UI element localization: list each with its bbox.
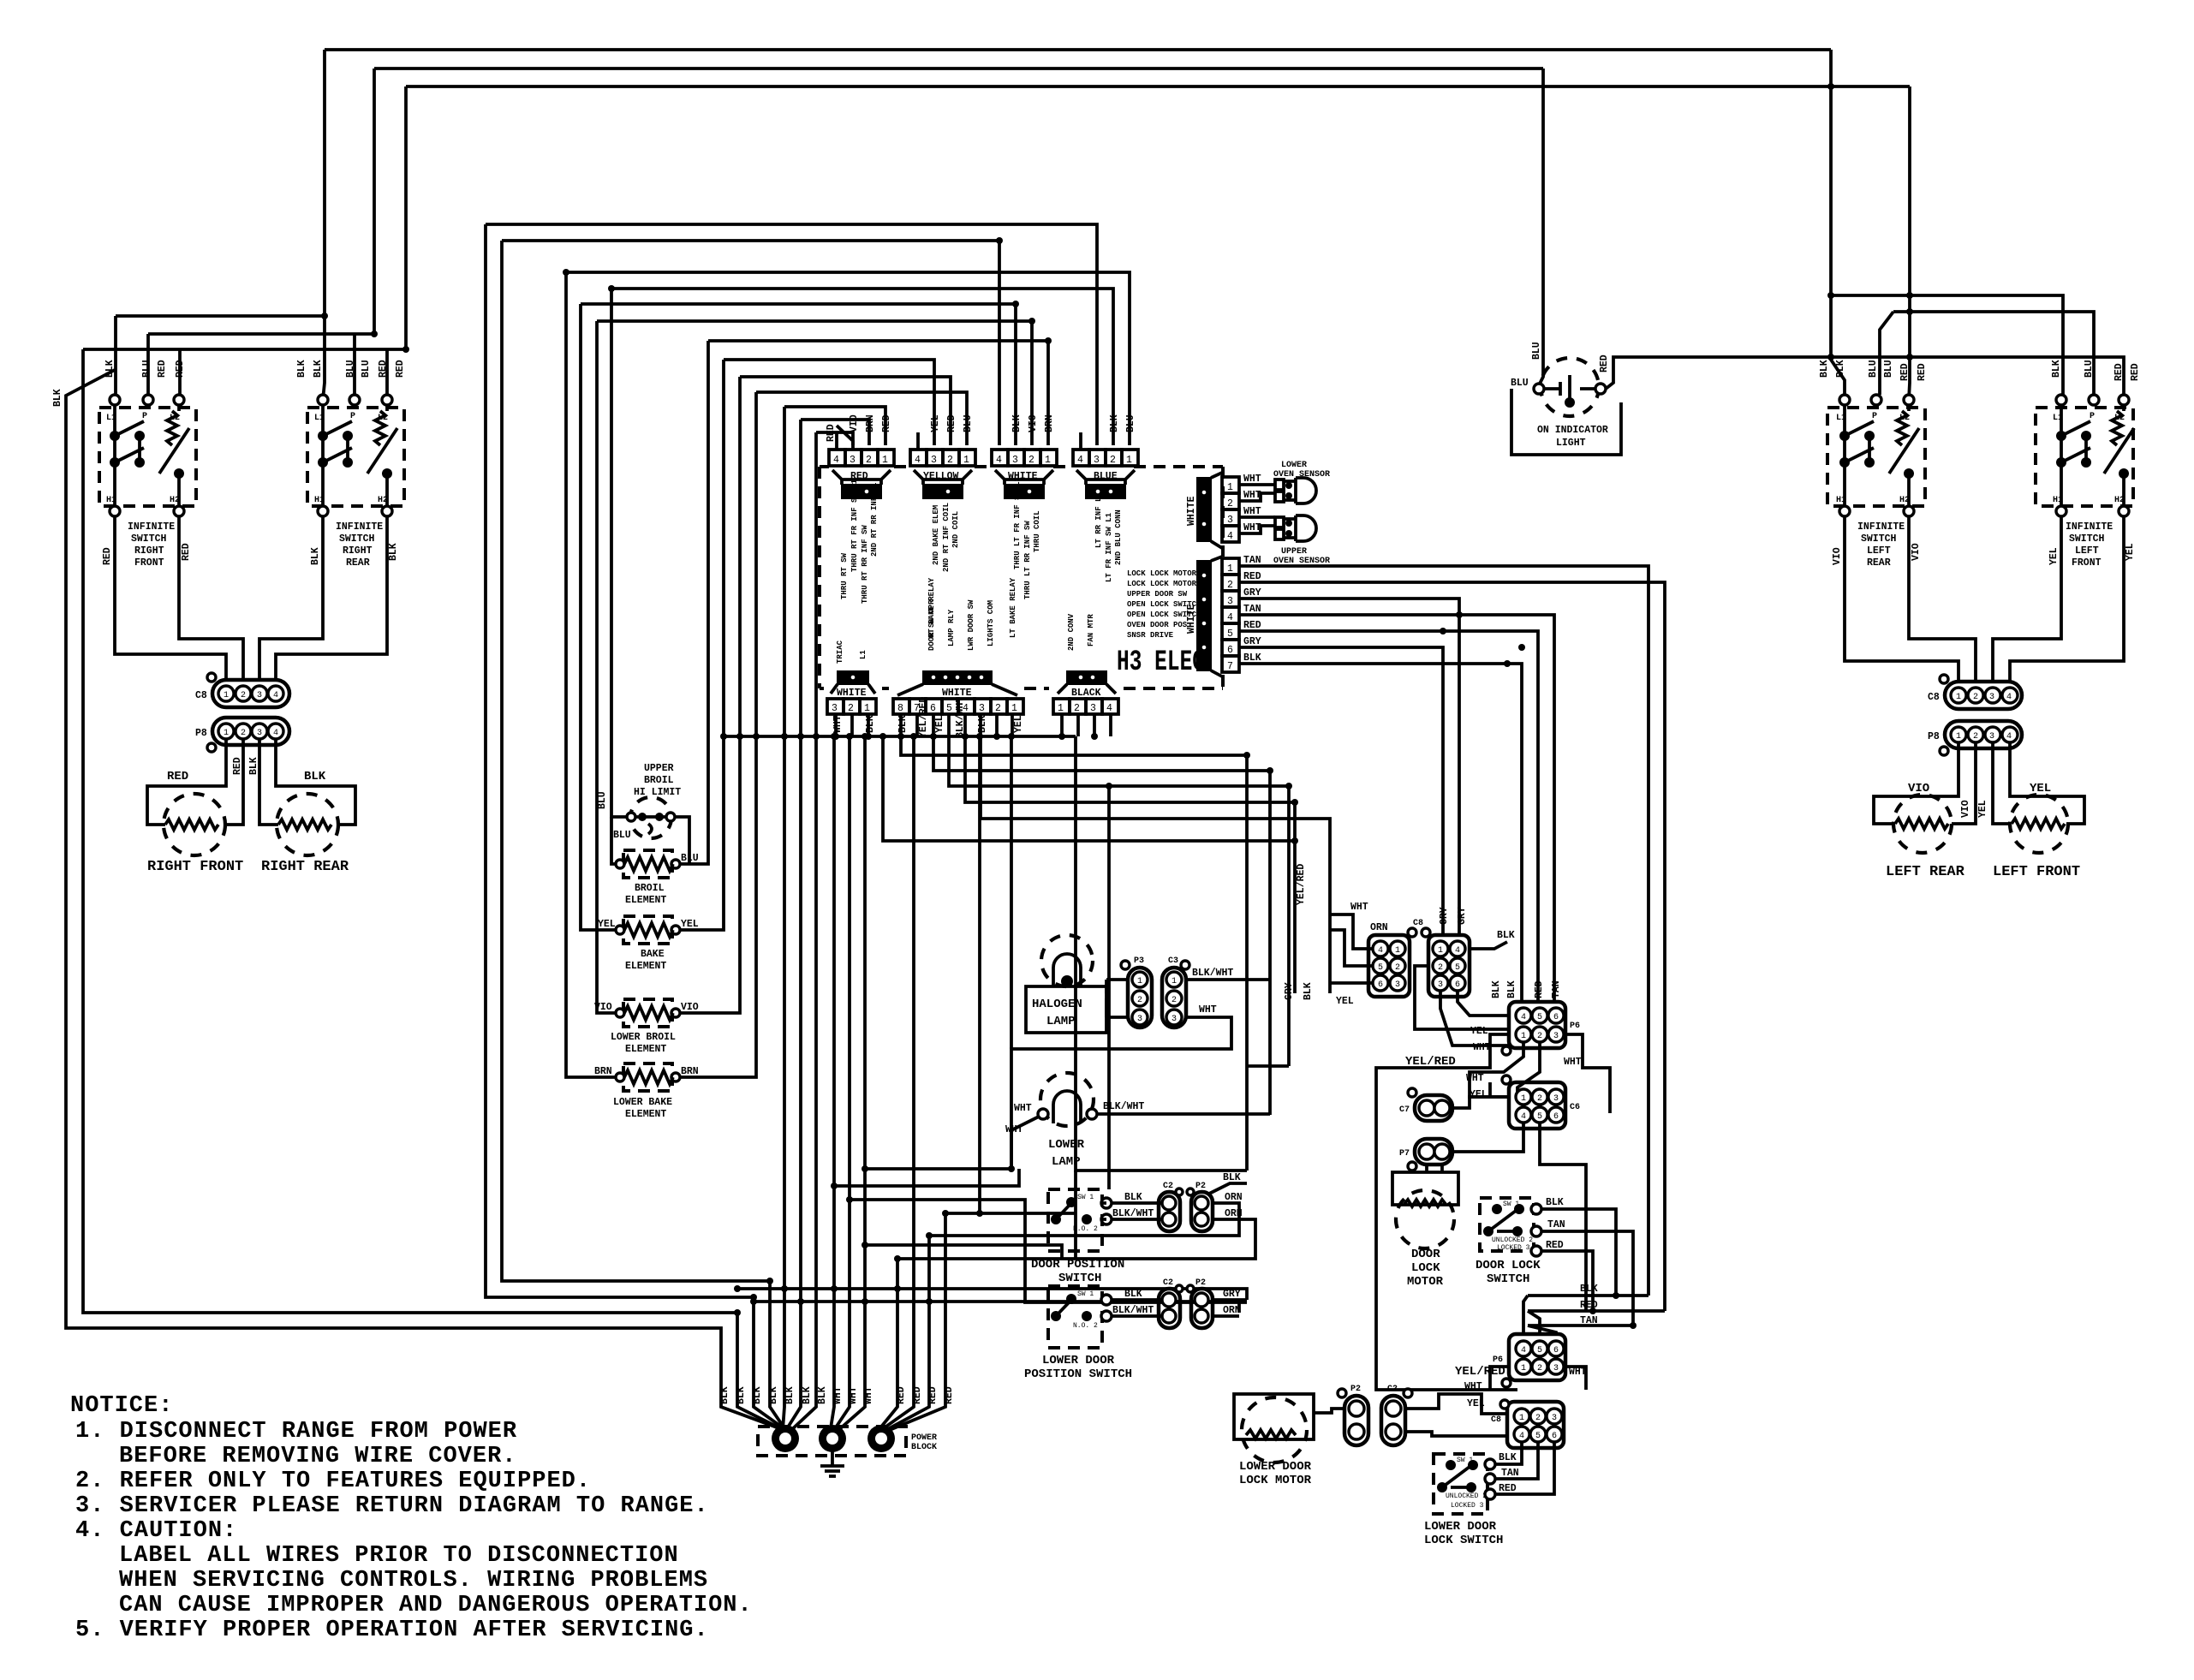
svg-text:L2: L2 [170,414,180,423]
svg-text:LOWER: LOWER [1048,1138,1085,1152]
svg-text:L1: L1 [106,414,116,423]
svg-text:THRU LT RR INF SW: THRU LT RR INF SW [1023,521,1032,599]
pin H2 left front [2119,506,2129,516]
svg-text:2ND RT RR INF L1: 2ND RT RR INF L1 [870,482,879,557]
svg-text:WHT: WHT [1466,1073,1484,1084]
wire fan vertical 974 [831,736,834,1428]
svg-text:2ND CONV: 2ND CONV [1067,613,1076,651]
svg-text:REAR: REAR [346,557,370,569]
wire P6b right wht [1565,1367,1586,1390]
connector WHITE body [1005,485,1044,498]
wire RR H2 to C8 pin4 [276,516,387,680]
connector function text extra [861,503,1113,638]
svg-text:WHT: WHT [1350,902,1368,913]
connector C2 door [1159,1192,1180,1231]
svg-text:BLK: BLK [1303,982,1314,1000]
wire wht right of P6 [1565,1034,1610,1113]
wire element feed x697 [597,321,620,1013]
connector BLACK body [1067,671,1106,684]
connector P6g 6pin gry [1428,935,1470,997]
wire TAN long [1239,566,1648,1296]
svg-text:BLACK: BLACK [1071,688,1101,699]
wire P8.3 down [259,739,278,825]
pin L1 left rear [1839,395,1850,405]
pin L2 left front [2119,395,2129,405]
pin H1 left rear [1839,506,1850,516]
svg-text:WHEN SERVICING CONTROLS. WIRIN: WHEN SERVICING CONTROLS. WIRING PROBLEMS [119,1568,708,1594]
connector BLUE pin boxes [1073,450,1138,466]
lower lamp pins [1038,1109,1048,1119]
wire ORN lower [1213,1314,1239,1318]
wire step S1 [901,736,1247,1171]
connector C2m [1381,1396,1405,1445]
svg-text:L1: L1 [859,650,867,659]
svg-text:YEL/RED: YEL/RED [1405,1055,1456,1069]
connector P2 lower door [1191,1289,1213,1328]
connector WHITE3 pin boxes [827,699,876,714]
wire P6b left to loop [1490,1367,1509,1390]
wire main bus under board [724,735,1076,738]
svg-text:LOCKED 3: LOCKED 3 [1451,1502,1484,1510]
svg-text:WHT: WHT [848,1386,859,1404]
svg-text:LEFT: LEFT [1867,545,1891,557]
wire RED long [1239,582,1665,1311]
indicator box [1511,389,1621,455]
svg-text:THRU RT FR INF SW L1: THRU RT FR INF SW L1 [850,479,859,572]
svg-text:1: 1 [1227,482,1233,493]
svg-text:LOWER BROIL: LOWER BROIL [611,1032,676,1043]
svg-text:2: 2 [1537,1094,1542,1104]
wire step S3 [949,736,1289,1066]
pin H2 right rear [382,506,392,516]
wire fan vertical 918 [783,407,784,1430]
svg-text:ORN: ORN [1225,1192,1243,1203]
svg-text:1: 1 [224,729,229,738]
svg-text:P2: P2 [1195,1182,1206,1191]
svg-text:3: 3 [832,703,838,714]
svg-text:BRN: BRN [1044,414,1055,432]
lower bake element [623,1063,672,1091]
svg-text:SWITCH: SWITCH [1058,1272,1101,1285]
wire nested bus N6 [597,321,1032,445]
svg-text:REAR: REAR [1867,557,1891,569]
svg-text:BLK: BLK [1580,1284,1598,1295]
svg-text:BLU: BLU [361,360,372,378]
lower broil element [623,999,672,1027]
svg-text:LT RR INF L1: LT RR INF L1 [1094,492,1103,548]
fan wire labels BLK [719,1386,955,1404]
infinite switch right rear box [307,408,404,506]
svg-text:3. SERVICER PLEASE RETURN DIAG: 3. SERVICER PLEASE RETURN DIAGRAM TO RAN… [75,1493,709,1519]
svg-text:4. CAUTION:: 4. CAUTION: [75,1518,237,1544]
door lock switch wires [1541,1209,1633,1326]
svg-text:C2: C2 [1163,1182,1173,1191]
svg-text:3: 3 [257,729,262,738]
svg-text:3: 3 [850,455,856,466]
svg-text:MOTOR: MOTOR [1407,1275,1444,1289]
lower door lock switch [1434,1454,1488,1514]
svg-text:2ND RT INF COIL: 2ND RT INF COIL [942,503,951,572]
ground symbol [820,1451,844,1476]
wire vertical A left [323,50,325,400]
door lock switch pins [1531,1204,1541,1214]
svg-text:BLK: BLK [1491,980,1502,998]
wire GRY to lock conn [1239,599,1459,937]
connector BLACK pin function text [1067,613,1095,651]
wire center bundle horizontals [945,1212,1076,1215]
svg-text:P8: P8 [1928,731,1940,742]
svg-text:LAMP: LAMP [1052,1155,1081,1169]
svg-text:FRONT: FRONT [134,557,164,569]
wire nested bus N12 [801,420,869,445]
pin P left rear [1871,395,1881,405]
svg-text:BLK: BLK [310,547,321,565]
svg-text:3: 3 [1553,1094,1559,1104]
wire left outer 2 [83,349,784,1430]
switch LR contacts [1845,405,1909,506]
svg-text:VIO: VIO [1028,414,1039,432]
connector WHITE pin boxes [992,450,1057,466]
svg-text:VIO: VIO [594,1002,612,1013]
svg-text:BRN: BRN [594,1066,612,1077]
svg-text:P: P [2090,412,2095,421]
wire vertical B right to indicator [1539,69,1543,385]
svg-text:BLK: BLK [104,360,116,378]
svg-text:FAN MTR: FAN MTR [1087,614,1095,646]
svg-text:BLU: BLU [1511,378,1529,389]
svg-text:3: 3 [1227,596,1233,607]
wire fan vertical 1067 [881,736,914,1430]
door lock switch box [1480,1198,1534,1251]
svg-text:RIGHT: RIGHT [343,545,373,557]
wire fan vertical 938 [786,420,801,1430]
svg-text:5: 5 [1378,963,1383,973]
svg-text:RED: RED [181,543,192,561]
svg-text:DOOR: DOOR [1411,1248,1440,1261]
svg-text:UPPER DOOR SW: UPPER DOOR SW [1127,590,1188,599]
svg-text:LOCK SWITCH: LOCK SWITCH [1424,1534,1503,1547]
svg-text:BLK: BLK [1497,930,1515,941]
svg-text:SWITCH: SWITCH [131,533,167,545]
svg-text:C8: C8 [1928,692,1940,703]
pin P right front [143,395,153,405]
svg-text:YEL: YEL [598,919,616,930]
junction N3 left [563,269,569,276]
wire bus left vertical x586 [502,241,784,1428]
svg-text:2: 2 [1227,580,1233,591]
svg-text:P8: P8 [195,728,207,739]
wire P8.1 RED loop [147,739,226,825]
svg-text:2: 2 [1537,1364,1542,1373]
pin L1 right rear [318,395,328,405]
pin L1 right front [110,395,120,405]
svg-text:C2: C2 [1387,1385,1398,1394]
svg-text:UNLOCKED 2: UNLOCKED 2 [1446,1492,1487,1500]
svg-text:SW 1: SW 1 [1457,1457,1473,1464]
connector P8 right side [1945,721,2022,748]
svg-text:WHT: WHT [1243,522,1261,533]
pin P left front [2089,395,2099,405]
svg-text:1: 1 [1126,455,1132,466]
svg-text:1: 1 [1395,946,1400,956]
wire H3 interlink [83,349,406,395]
top connector stub pins [837,432,1081,450]
wires to C2 [1102,1203,1161,1219]
wire H1 interlink [116,316,323,395]
svg-text:OVEN SENSOR: OVEN SENSOR [1273,470,1330,480]
wire vertical bus end right [1076,736,1247,1171]
svg-text:LOWER DOOR: LOWER DOOR [1239,1460,1312,1474]
svg-text:C8: C8 [195,690,207,701]
wire LR H1 to C8r pin1 [1845,516,1959,682]
svg-text:1: 1 [1521,1094,1526,1104]
svg-text:BRN: BRN [865,414,876,432]
svg-text:BLK: BLK [865,715,876,733]
wire element riser lower broil [676,377,740,1013]
wire vertical C left [404,86,408,349]
svg-text:3: 3 [1227,515,1233,526]
svg-text:2ND BAKE ELEM: 2ND BAKE ELEM [932,505,940,565]
svg-text:RED: RED [167,770,188,783]
wire staircase extra 2 [850,1200,1247,1302]
svg-text:2: 2 [1537,1032,1542,1041]
labels VIO YEL vertical [1960,800,1988,818]
connector P2 door [1191,1192,1213,1231]
svg-text:P2: P2 [1350,1385,1361,1394]
svg-text:SWITCH: SWITCH [2069,533,2105,545]
svg-text:C7: C7 [1399,1105,1410,1115]
svg-text:RED: RED [912,1386,923,1404]
svg-text:1: 1 [1956,693,1961,702]
svg-text:P2: P2 [1195,1278,1206,1288]
wires into C8 right [1330,914,1373,983]
wire vertical 1144 down [978,736,981,1213]
pin H2 left rear [1904,506,1914,516]
wire BLK from P6g [1470,942,1507,949]
svg-text:1: 1 [1956,732,1961,742]
svg-text:2: 2 [947,455,953,466]
svg-text:5: 5 [1537,1346,1542,1355]
wire nested bus N1 [486,224,1097,445]
svg-text:3: 3 [1438,980,1443,990]
svg-text:YEL: YEL [2030,782,2051,795]
svg-text:VIO: VIO [849,414,860,432]
VIO slant wire RED conn [837,426,853,450]
svg-text:6: 6 [1227,645,1233,656]
svg-text:GRY: GRY [1457,907,1468,925]
power block dashed box [758,1427,906,1456]
svg-text:3: 3 [1553,1364,1559,1373]
svg-text:TAN: TAN [1580,1315,1598,1326]
svg-text:2: 2 [1074,703,1080,714]
wire hi-limit to broil left [611,817,620,864]
svg-text:8: 8 [897,703,903,714]
lower lamp dashed circle [1040,1073,1094,1126]
connector WHITE8 body [923,671,992,684]
bottom connector pin drops [836,714,1111,736]
wire ORN2 [897,1171,1255,1259]
wire nested bus N8 [724,360,934,445]
notice text [70,1393,753,1643]
svg-text:YEL: YEL [2048,547,2060,565]
svg-text:RED: RED [1243,620,1261,631]
svg-text:BLU: BLU [1125,414,1136,432]
svg-text:BEFORE REMOVING WIRE COVER.: BEFORE REMOVING WIRE COVER. [119,1444,516,1469]
connector P6b 6pin [1509,1334,1565,1380]
wire top BLU run B [374,67,1543,70]
svg-text:BLU: BLU [597,791,608,809]
svg-text:CAN CAUSE IMPROPER AND DANGERO: CAN CAUSE IMPROPER AND DANGEROUS OPERATI… [119,1593,753,1618]
wire step extra A [883,736,1295,841]
svg-text:P6: P6 [1570,1022,1580,1031]
svg-text:HALOGEN: HALOGEN [1032,998,1082,1011]
svg-text:H2: H2 [378,496,388,505]
svg-text:BLK/WHT: BLK/WHT [1112,1305,1154,1316]
svg-text:C2: C2 [1163,1278,1173,1288]
svg-text:BLK: BLK [1223,1172,1241,1183]
svg-text:P: P [142,412,147,421]
svg-text:2: 2 [1438,963,1443,973]
pin L2 left rear [1904,395,1914,405]
svg-text:BLU: BLU [2084,360,2095,378]
connector C2 lower door [1159,1289,1180,1328]
halogen lamp dashed circle [1041,935,1093,986]
svg-text:P: P [1872,412,1877,421]
svg-text:WHT: WHT [1014,1103,1032,1114]
svg-text:RED: RED [395,360,406,378]
upper oven sensor [1275,517,1284,527]
connector C6b 6pin [1507,1402,1564,1448]
connector WHITE8 pin function text [927,599,995,651]
wire BLK from P2 top [1207,1183,1247,1194]
connector P3 [1128,968,1152,1028]
svg-text:L2: L2 [378,414,388,423]
svg-text:SW 1: SW 1 [1503,1200,1519,1208]
svg-text:LIGHT: LIGHT [1556,438,1586,449]
door lock motor [1427,1165,1442,1172]
wire LR H2 to C8r pin2 [1909,516,1976,682]
element right front coil [165,819,218,830]
svg-text:P6: P6 [1493,1355,1503,1365]
labels BLK BLK RED TAN above P6 [1491,980,1562,998]
svg-text:BLU: BLU [681,853,699,864]
svg-text:BLOCK: BLOCK [911,1443,937,1452]
svg-text:4: 4 [833,455,839,466]
connector C8 right side [1945,682,2022,709]
element right rear coil [278,819,331,830]
svg-text:WHT: WHT [1564,1057,1582,1068]
connector RED pin boxes [829,450,894,466]
svg-text:POSITION SWITCH: POSITION SWITCH [1024,1367,1132,1381]
wire staircase extra 1 [834,1169,1019,1186]
svg-text:WHT: WHT [1243,474,1261,485]
svg-text:GRY: GRY [1284,982,1295,1000]
svg-text:LT BAKE RELAY: LT BAKE RELAY [1009,577,1017,638]
svg-text:BROIL: BROIL [635,883,665,894]
connector RED trapezoid [832,470,891,485]
element left rear circle [1893,795,1952,853]
svg-text:RED: RED [2130,363,2141,381]
svg-text:THRU RT SW: THRU RT SW [840,552,849,599]
svg-text:BLK/WHT: BLK/WHT [1103,1101,1144,1112]
svg-text:ELEMENT: ELEMENT [625,961,666,972]
pin L1 left front [2056,395,2066,405]
svg-text:2: 2 [1227,498,1233,509]
connector YELLOW body [923,485,963,498]
svg-text:OVEN DOOR POS: OVEN DOOR POS [1127,621,1188,629]
svg-text:BRN: BRN [681,1066,699,1077]
svg-text:GRY: GRY [1243,587,1261,599]
svg-text:YEL/RED: YEL/RED [1296,864,1307,905]
svg-text:BLK: BLK [1124,1289,1142,1300]
svg-text:YEL: YEL [681,919,699,930]
svg-text:4: 4 [1077,455,1083,466]
svg-text:1: 1 [1521,1364,1526,1373]
connector P6 6pin [1509,1002,1565,1048]
svg-text:POWER: POWER [911,1433,937,1443]
junctions interlink [321,313,328,319]
svg-text:SWITCH: SWITCH [1861,533,1897,545]
svg-text:RED: RED [378,360,389,378]
svg-text:RED: RED [896,1386,907,1404]
svg-text:2: 2 [1973,693,1978,702]
svg-text:6: 6 [1378,980,1383,990]
svg-text:5: 5 [1537,1112,1542,1122]
svg-text:2: 2 [1137,996,1142,1005]
lower oven sensor [1275,480,1284,490]
svg-text:6: 6 [930,703,936,714]
svg-text:4: 4 [915,455,921,466]
svg-text:1: 1 [1519,1414,1524,1423]
halogen lamp box [1026,986,1106,1033]
wire LF H2 to C8r pin4 [2010,516,2124,682]
svg-text:6: 6 [1553,1013,1559,1022]
wire RED from indicator [1606,357,2124,395]
svg-text:5: 5 [1227,629,1233,640]
svg-text:RED: RED [881,414,892,432]
connector P8 left [212,718,289,745]
wire H2 interlink [148,334,374,395]
wire fan vertical 956 [790,432,816,1432]
connector WHITE3 body [838,671,868,684]
svg-text:SW 1: SW 1 [1077,1290,1094,1298]
svg-text:RED: RED [1917,363,1928,381]
svg-text:3: 3 [1395,980,1400,990]
svg-text:1: 1 [1172,977,1177,986]
svg-text:BLK: BLK [784,1386,796,1404]
wire fan vertical 1104 [885,1213,945,1432]
svg-text:3: 3 [1553,1032,1559,1041]
svg-text:LOWER DOOR: LOWER DOOR [1424,1520,1497,1534]
svg-text:BLK: BLK [304,770,326,783]
wire labels box2 [296,360,406,565]
connector WHITE8 pin boxes [893,699,1023,714]
svg-text:BLK: BLK [52,389,63,407]
wire nested bus N4 [611,289,1113,445]
svg-text:LOCK: LOCK [1411,1261,1440,1275]
svg-text:BLK: BLK [802,1386,813,1404]
svg-text:UPPER: UPPER [1281,547,1307,557]
wire P8.2 down [224,739,243,825]
lower lock motor [1234,1394,1314,1439]
wire element feed x714 [611,289,629,817]
svg-text:DOOR SW UPR: DOOR SW UPR [927,599,936,651]
door position switch pins [1101,1198,1112,1208]
svg-text:RED: RED [1499,1483,1517,1494]
junction marks steps [1243,752,1250,759]
svg-text:ELEMENT: ELEMENT [625,1109,666,1120]
svg-text:YEL: YEL [934,715,945,733]
